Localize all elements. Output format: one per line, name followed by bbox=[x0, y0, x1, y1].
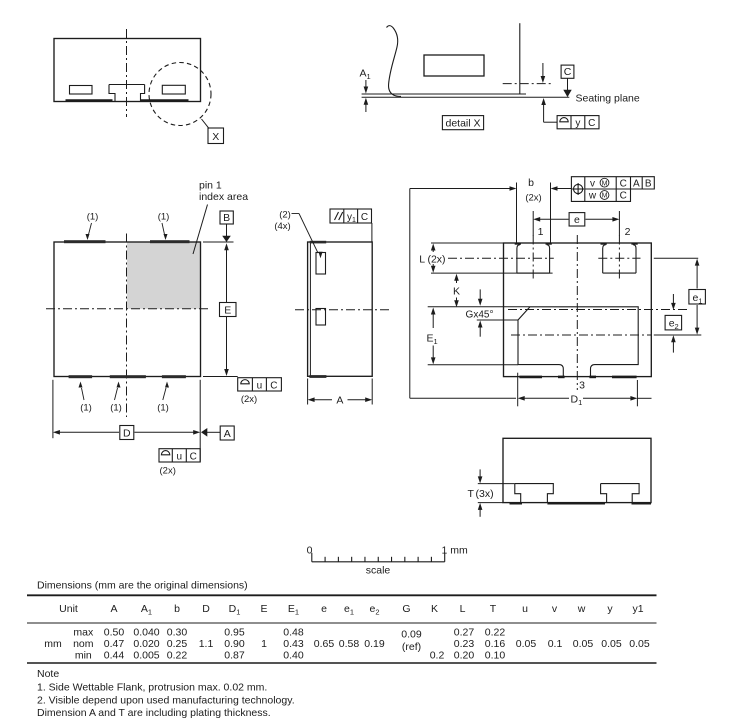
svg-text:C: C bbox=[270, 380, 277, 391]
scale bar labels bbox=[307, 545, 468, 577]
(2) leader arrow bbox=[292, 214, 323, 259]
bottom plating line left segment bbox=[66, 99, 113, 102]
datum A leader + triangle bbox=[201, 428, 220, 437]
bottom edge plating tab 1 bbox=[519, 376, 542, 379]
svg-text:scale: scale bbox=[366, 565, 391, 577]
svg-text:0.43: 0.43 bbox=[283, 638, 304, 650]
svg-text:0.05: 0.05 bbox=[601, 638, 622, 650]
(1) label top-left bbox=[86, 212, 99, 241]
svg-text:Unit: Unit bbox=[59, 603, 78, 615]
svg-text:A1: A1 bbox=[360, 68, 371, 82]
bottom edge tab 1 bbox=[69, 375, 93, 378]
svg-text:C: C bbox=[190, 451, 197, 462]
T view left stepped terminal bbox=[515, 484, 554, 503]
position feature control frame bbox=[571, 177, 654, 202]
svg-text:C: C bbox=[361, 212, 368, 223]
svg-text:0.22: 0.22 bbox=[167, 650, 188, 662]
(1) label bottom 1 bbox=[79, 382, 92, 414]
T (3x) label bbox=[468, 488, 494, 500]
svg-text:y: y bbox=[607, 603, 613, 615]
e1 box bbox=[689, 290, 706, 306]
svg-text:C: C bbox=[564, 66, 572, 78]
detail X: mid dash-dot line bbox=[503, 83, 553, 85]
G bottom extension + arrow bbox=[477, 320, 518, 337]
svg-text:max: max bbox=[73, 626, 94, 638]
middle side view body bbox=[308, 242, 373, 376]
L extension bottom line bbox=[431, 272, 553, 274]
detail X: y arrow down to dash line bbox=[541, 63, 546, 83]
table header rule bbox=[27, 622, 657, 624]
dimension A text bbox=[336, 395, 343, 407]
T view right stepped terminal bbox=[601, 484, 640, 503]
svg-text:(1): (1) bbox=[80, 403, 92, 414]
y feature control frame bbox=[557, 116, 599, 130]
detail X: package right edge bbox=[519, 23, 521, 94]
Seating plane label bbox=[576, 93, 640, 105]
y feature control frame leader bbox=[541, 98, 557, 122]
X label box bbox=[208, 128, 224, 144]
pin 1 index area leader bbox=[193, 205, 208, 255]
bottom edge tab 2 bbox=[110, 375, 146, 378]
svg-text:0.10: 0.10 bbox=[485, 650, 506, 662]
dimension e box bbox=[569, 213, 585, 227]
(1) label bottom 3 bbox=[157, 382, 169, 414]
bottom edge plating marks center bbox=[558, 376, 596, 379]
svg-text:(2): (2) bbox=[279, 210, 291, 221]
top edge tab 2 bbox=[150, 240, 190, 243]
bottom edge tab 3 bbox=[162, 375, 186, 378]
e2 box bbox=[665, 315, 682, 331]
svg-text:X: X bbox=[212, 131, 219, 143]
top view vertical centerline bbox=[126, 234, 128, 418]
svg-text:pin 1: pin 1 bbox=[199, 180, 222, 192]
top edge tab 1 bbox=[64, 240, 106, 243]
svg-text:v: v bbox=[552, 603, 558, 615]
svg-text:1: 1 bbox=[261, 638, 267, 650]
svg-text:0.22: 0.22 bbox=[485, 626, 506, 638]
middle side view centerline bbox=[295, 309, 389, 311]
L extension top line bbox=[431, 242, 504, 244]
b extension lines bbox=[517, 183, 551, 244]
D1 label bbox=[571, 393, 583, 407]
datum C box bbox=[561, 65, 574, 78]
svg-text:e: e bbox=[574, 214, 580, 226]
svg-text:1. Side Wettable Flank, protru: 1. Side Wettable Flank, protrusion max. … bbox=[37, 682, 267, 694]
top view horizontal centerline bbox=[46, 308, 210, 310]
bottom view body outline bbox=[504, 243, 652, 377]
svg-text:Seating plane: Seating plane bbox=[576, 93, 640, 105]
svg-text:E: E bbox=[260, 603, 267, 615]
svg-text:L: L bbox=[460, 603, 466, 615]
pin 1 number label bbox=[538, 226, 544, 238]
dimension E box bbox=[220, 303, 237, 317]
bottom extension line for E / frame bbox=[203, 376, 238, 378]
T view bottom plating segments bbox=[510, 502, 652, 504]
pin 2 pad outline bbox=[603, 243, 636, 273]
svg-text:Dimensions (mm are the origina: Dimensions (mm are the original dimensio… bbox=[37, 580, 248, 592]
svg-text:0.48: 0.48 bbox=[283, 626, 304, 638]
svg-text:0: 0 bbox=[307, 545, 313, 557]
parallelism feature frame y1 C bbox=[330, 209, 372, 224]
D1 extension lines bbox=[518, 373, 638, 407]
svg-text:0.95: 0.95 bbox=[224, 626, 245, 638]
label A1 bbox=[360, 68, 371, 82]
svg-text:u: u bbox=[522, 603, 528, 615]
svg-text:A1: A1 bbox=[141, 603, 152, 617]
datum C leader + filled triangle bbox=[563, 78, 571, 97]
svg-text:Gx45°: Gx45° bbox=[466, 310, 494, 321]
D extension line right bbox=[199, 380, 201, 462]
svg-text:e2: e2 bbox=[369, 603, 379, 617]
svg-text:min: min bbox=[75, 650, 92, 662]
svg-text:0.65: 0.65 bbox=[314, 638, 335, 650]
notes bbox=[37, 668, 295, 719]
svg-text:E: E bbox=[224, 304, 231, 316]
svg-text:0.1: 0.1 bbox=[548, 638, 563, 650]
(1) label bottom 2 bbox=[110, 382, 122, 414]
svg-text:(2x): (2x) bbox=[525, 193, 541, 204]
dimension K bbox=[453, 274, 460, 308]
svg-text:G: G bbox=[402, 603, 410, 615]
svg-text:C: C bbox=[588, 118, 595, 129]
svg-text:K: K bbox=[453, 285, 460, 297]
svg-text:w: w bbox=[577, 603, 586, 615]
svg-text:0.09: 0.09 bbox=[401, 628, 422, 640]
table top rule bbox=[27, 594, 657, 596]
dimension E1 bbox=[427, 308, 438, 365]
pin 3 number label bbox=[579, 380, 585, 392]
svg-text:0.05: 0.05 bbox=[516, 638, 537, 650]
svg-text:2. Visible depend upon used ma: 2. Visible depend upon used manufacturin… bbox=[37, 694, 295, 706]
pin 1 pad corner plating marks bbox=[515, 243, 552, 245]
A extension line left bbox=[307, 379, 309, 405]
svg-text:D1: D1 bbox=[571, 393, 583, 407]
table bottom rule bbox=[27, 662, 657, 664]
datum A box bbox=[220, 426, 234, 440]
middle side view bottom tab bbox=[309, 375, 326, 378]
svg-text:detail X: detail X bbox=[445, 117, 480, 129]
dimension e line bbox=[533, 217, 619, 222]
svg-text:0.90: 0.90 bbox=[224, 638, 245, 650]
detail X: seating plane line bbox=[362, 96, 570, 98]
pin 1 index area label bbox=[199, 180, 248, 204]
svg-text:e: e bbox=[321, 603, 327, 615]
dimension e1 bbox=[695, 259, 700, 335]
svg-text:u: u bbox=[177, 451, 183, 462]
svg-text:A: A bbox=[110, 603, 117, 615]
svg-text:1 mm: 1 mm bbox=[442, 545, 469, 557]
dimension L (2x) bbox=[419, 244, 445, 273]
svg-text:T: T bbox=[490, 603, 497, 615]
E1 bottom extension line bbox=[428, 364, 518, 366]
svg-text:0.23: 0.23 bbox=[454, 638, 475, 650]
pins horizontal centerline bbox=[448, 257, 641, 259]
leader to X label bbox=[202, 119, 210, 129]
svg-text:E1: E1 bbox=[427, 333, 438, 347]
b dimension right arrow bbox=[551, 186, 572, 191]
svg-text:0.05: 0.05 bbox=[629, 638, 650, 650]
svg-text:2: 2 bbox=[625, 226, 631, 238]
svg-text:(1): (1) bbox=[158, 212, 170, 223]
svg-text:v: v bbox=[590, 178, 595, 189]
svg-text:index area: index area bbox=[199, 191, 248, 203]
datum B triangle bbox=[222, 224, 231, 242]
middle side view top tab bbox=[310, 241, 327, 244]
svg-text:A: A bbox=[633, 178, 640, 189]
svg-text:nom: nom bbox=[73, 638, 94, 650]
detail X: body cut edge (curved) bbox=[387, 26, 402, 97]
bottom pad centerline bbox=[511, 334, 651, 336]
svg-text:L: L bbox=[419, 253, 425, 265]
svg-text:1: 1 bbox=[538, 226, 544, 238]
center terminal pad (side view) bbox=[109, 85, 145, 102]
dimension e2 arrows bbox=[671, 294, 676, 353]
svg-text:(2x): (2x) bbox=[241, 394, 257, 405]
svg-text:(4x): (4x) bbox=[274, 221, 290, 232]
svg-text:0.25: 0.25 bbox=[167, 638, 188, 650]
bottom view vertical centerline bbox=[576, 235, 578, 390]
svg-text:u: u bbox=[257, 380, 263, 391]
pin 2 vertical centerline bbox=[618, 236, 620, 282]
datum B box bbox=[220, 211, 233, 224]
svg-text:Dimension A and T are includin: Dimension A and T are including plating … bbox=[37, 707, 271, 719]
svg-text:0.27: 0.27 bbox=[454, 626, 475, 638]
svg-text:0.58: 0.58 bbox=[339, 638, 360, 650]
svg-text:(2x): (2x) bbox=[427, 253, 445, 265]
svg-text:A: A bbox=[224, 428, 231, 440]
svg-text:y1: y1 bbox=[347, 212, 356, 224]
svg-text:B: B bbox=[645, 178, 652, 189]
svg-text:y1: y1 bbox=[632, 603, 643, 615]
right terminal pad (side view) bbox=[162, 85, 185, 94]
detail circle X (dashed) bbox=[149, 63, 211, 126]
svg-text:0.05: 0.05 bbox=[573, 638, 594, 650]
detail X label box bbox=[442, 116, 483, 130]
feature frame (2x) right of top view bbox=[238, 378, 282, 392]
detail X: terminal cross-section bbox=[424, 55, 484, 76]
svg-text:D1: D1 bbox=[229, 603, 241, 617]
svg-text:0.040: 0.040 bbox=[133, 626, 159, 638]
svg-text:0.47: 0.47 bbox=[104, 638, 125, 650]
svg-text:0.2: 0.2 bbox=[430, 650, 445, 662]
svg-text:(1): (1) bbox=[110, 403, 122, 414]
(2) (4x) labels bbox=[274, 210, 291, 233]
T dimension arrows bbox=[478, 469, 483, 516]
svg-text:C: C bbox=[620, 178, 627, 189]
scale bar bbox=[312, 553, 445, 562]
svg-text:w: w bbox=[588, 191, 597, 202]
feature frame (2x) below top view bbox=[159, 449, 200, 463]
dimension D line bbox=[53, 430, 200, 435]
bottom plating line right segment bbox=[141, 99, 189, 102]
svg-text:D: D bbox=[202, 603, 210, 615]
pin 2 number label bbox=[625, 226, 631, 238]
side view body (top-left) bbox=[54, 39, 201, 102]
top view: pin1 index area (gray) bbox=[127, 242, 201, 308]
svg-text:1.1: 1.1 bbox=[199, 638, 214, 650]
svg-text:D: D bbox=[123, 427, 131, 439]
middle side view top pad bbox=[316, 253, 326, 275]
top extension line for E bbox=[203, 241, 234, 243]
A extension line right bbox=[371, 379, 373, 405]
bottom edge plating tab 2 bbox=[612, 376, 637, 379]
svg-text:0.19: 0.19 bbox=[364, 638, 385, 650]
svg-text:M: M bbox=[602, 193, 608, 200]
svg-text:A: A bbox=[336, 395, 343, 407]
table title bbox=[37, 580, 248, 592]
left terminal pad (side view) bbox=[70, 86, 93, 95]
middle side view mid pad bbox=[316, 309, 326, 326]
svg-text:(2x): (2x) bbox=[160, 466, 176, 477]
svg-text:3: 3 bbox=[579, 380, 585, 392]
middle side view inner left edge line bbox=[309, 243, 311, 376]
pin 1 pad outline bbox=[517, 243, 550, 273]
svg-text:(ref): (ref) bbox=[402, 641, 421, 653]
svg-text:b: b bbox=[174, 603, 180, 615]
table header row bbox=[59, 603, 644, 617]
svg-text:K: K bbox=[431, 603, 438, 615]
G top arrow bbox=[478, 289, 483, 305]
svg-text:T: T bbox=[468, 488, 475, 500]
svg-text:0.020: 0.020 bbox=[133, 638, 159, 650]
b dimension long left line (jog to D1) bbox=[410, 186, 517, 398]
svg-text:0.50: 0.50 bbox=[104, 626, 125, 638]
svg-text:0.20: 0.20 bbox=[454, 650, 475, 662]
bottom pad (pin 3) outline bbox=[518, 307, 638, 377]
e extension solid segments above pads bbox=[533, 211, 619, 236]
svg-text:0.44: 0.44 bbox=[104, 650, 125, 662]
table body values bbox=[44, 626, 650, 661]
dimension D1 line bbox=[410, 396, 652, 401]
vertical centerline (top-left view) bbox=[126, 29, 128, 117]
svg-text:0.40: 0.40 bbox=[283, 650, 304, 662]
svg-text:b: b bbox=[528, 177, 534, 189]
dimension D box bbox=[120, 426, 134, 440]
svg-text:e1: e1 bbox=[344, 603, 354, 617]
svg-text:M: M bbox=[602, 180, 608, 187]
svg-text:B: B bbox=[223, 212, 230, 224]
svg-text:0.87: 0.87 bbox=[224, 650, 245, 662]
D extension line left bbox=[52, 380, 54, 438]
T view body bbox=[503, 438, 651, 502]
dimension A line bbox=[308, 397, 373, 402]
svg-text:E1: E1 bbox=[288, 603, 299, 617]
svg-text:(3x): (3x) bbox=[476, 488, 494, 500]
(2x) text right frame bbox=[241, 394, 257, 405]
svg-text:C: C bbox=[620, 191, 627, 202]
b (2x) labels bbox=[525, 177, 541, 204]
A1 dimension arrows bbox=[364, 80, 369, 112]
pin 2 pad corner plating marks bbox=[601, 243, 638, 245]
svg-text:y: y bbox=[575, 118, 580, 129]
E1/G top extension line bbox=[428, 306, 530, 308]
svg-text:0.16: 0.16 bbox=[485, 638, 506, 650]
(2x) text bottom frame bbox=[160, 466, 176, 477]
T extension lines bbox=[478, 484, 515, 503]
bottom view horizontal centerline bbox=[508, 309, 688, 311]
dimension E line bbox=[224, 243, 229, 376]
detail X: terminal bottom line bbox=[362, 93, 526, 95]
svg-text:mm: mm bbox=[44, 638, 62, 650]
svg-text:0.005: 0.005 bbox=[133, 650, 159, 662]
top view body outline bbox=[54, 242, 201, 377]
svg-text:Note: Note bbox=[37, 668, 59, 680]
svg-text:0.30: 0.30 bbox=[167, 626, 188, 638]
frame to body edge connector bbox=[371, 223, 373, 243]
svg-text:(1): (1) bbox=[87, 212, 99, 223]
bottom pad centerline extension right bbox=[654, 334, 702, 336]
pins centerline extension to e1 bbox=[654, 257, 698, 259]
pin 1 vertical centerline bbox=[532, 236, 534, 282]
(1) label top-right bbox=[158, 212, 170, 241]
Gx45 label bbox=[466, 310, 494, 321]
svg-text:(1): (1) bbox=[157, 403, 169, 414]
